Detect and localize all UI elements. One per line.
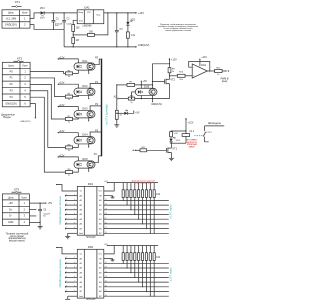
wire opto DU5 output to bus, net Р4 [93, 153, 101, 163]
svg-text:8: 8 [74, 223, 75, 225]
svg-text:Конт: Конт [22, 196, 28, 199]
svg-text:2: 2 [66, 257, 67, 259]
wire XT2 pin5 net Р4 [30, 97, 65, 172]
red note near relay [186, 140, 198, 149]
red note resistor network [131, 180, 155, 185]
DD2 OE pin ground [104, 259, 115, 261]
svg-text:LM2596: LM2596 [83, 24, 93, 27]
resistor R8 [128, 95, 134, 103]
svg-text:3: 3 [66, 199, 67, 201]
svg-text:GND(12V): GND(12V) [151, 104, 162, 106]
DD1 input pin 8 wire [65, 223, 77, 225]
bus annotation [105, 104, 109, 124]
svg-text:9: 9 [66, 227, 67, 229]
signal bus to DD1/DD2 [101, 59, 102, 157]
ground rail GND(12V) [64, 44, 149, 48]
svg-text:Vcc: Vcc [99, 254, 103, 256]
svg-text:1к: 1к [130, 102, 132, 104]
svg-text:Вых: Вых [97, 15, 101, 17]
DD2 output line 1 to LPT [104, 267, 169, 269]
svg-text:+12V: +12V [59, 82, 65, 85]
DD1 Vcc to rail wire [104, 183, 114, 191]
svg-text:внутри платы): внутри платы) [9, 240, 25, 243]
svg-text:+12V: +12V [188, 122, 194, 125]
wire XT3 D- [30, 215, 37, 217]
svg-text:+12V: +12V [59, 104, 65, 107]
wire opto DU2 output to bus, net Р1 [90, 81, 101, 89]
+5V arrow at DU6 [141, 80, 148, 85]
svg-text:15: 15 [105, 218, 107, 220]
svg-text:5: 5 [74, 271, 75, 273]
DD2 input pin 5 wire [65, 271, 77, 273]
wire DA2 output [207, 70, 214, 72]
wire R8 to opto DU4 [73, 144, 79, 147]
svg-text:+5V: +5V [143, 81, 148, 83]
DD2 Vcc wire [56, 247, 77, 254]
wire R5 to opto DU1 [73, 70, 79, 73]
DD2 LPT annotation [169, 267, 173, 282]
optocoupler DU5 [74, 157, 95, 168]
resistor R10 [177, 71, 185, 81]
svg-text:74НС245: 74НС245 [86, 237, 96, 239]
wire XT1 pin2 ground rail [30, 25, 64, 47]
svg-text:3: 3 [74, 199, 75, 201]
DD1 pull-up resistor array 9x [122, 183, 161, 234]
DD1 output line 7 to LPT [104, 232, 169, 234]
svg-text:2: 2 [66, 194, 67, 196]
svg-text:14: 14 [105, 213, 107, 215]
note under XT3 [6, 233, 29, 243]
svg-text:не ставить: не ставить [186, 140, 198, 142]
label discrete inputs [1, 113, 15, 119]
svg-text:3: 3 [74, 262, 75, 264]
svg-text:15: 15 [105, 281, 107, 283]
diode VD1 [40, 7, 46, 19]
connector XT2 table [2, 62, 30, 107]
relay coil K1 [182, 131, 195, 143]
pulldown resistor on node A1 [115, 84, 121, 125]
svg-text:8: 8 [66, 285, 67, 287]
svg-text:Цепь: Цепь [8, 196, 15, 199]
+12V feed opto DU2 [58, 82, 79, 89]
node A1 input [114, 96, 129, 100]
DD2 input pin 7 wire [65, 281, 77, 283]
svg-text:6: 6 [74, 213, 75, 215]
DD1 Vcc wire [56, 184, 77, 191]
svg-text:D−: D− [9, 215, 13, 218]
DD1 OE pin ground [104, 196, 115, 198]
svg-text:13: 13 [105, 208, 107, 210]
DD2 output line 4 to LPT [104, 281, 169, 283]
opto DU4 emitter ground [88, 144, 90, 148]
DD1 output line 5 to LPT [104, 223, 169, 225]
spindle connector [203, 121, 224, 142]
svg-text:16: 16 [105, 285, 107, 287]
optocoupler DU3 [74, 107, 95, 118]
svg-text:18: 18 [105, 232, 107, 234]
+12V feed opto DU3 [58, 104, 79, 111]
wire DU6 collector to R9 node [152, 64, 170, 88]
svg-text:1к: 1к [68, 150, 70, 152]
connector XT3 label [12, 188, 22, 194]
wire XT3 D+ [30, 209, 37, 211]
svg-text:выбирать исходя из входного на: выбирать исходя из входного напряжения [158, 26, 198, 28]
svg-text:Цепь: Цепь [8, 12, 15, 15]
svg-text:К1.1: К1.1 [190, 131, 195, 133]
svg-text:1к: 1к [172, 71, 174, 73]
resistor R5 input Р0 [65, 70, 72, 77]
svg-text:7: 7 [66, 218, 67, 220]
regulator DA1 [77, 6, 104, 28]
wire XT1 pin1 to VD1 [30, 13, 41, 19]
svg-text:4: 4 [66, 204, 67, 206]
gate resistor R12 [140, 147, 147, 152]
DA2 +12V supply [199, 57, 207, 66]
svg-text:связь!: связь! [189, 147, 196, 149]
svg-text:ХТ1: ХТ1 [15, 0, 21, 4]
svg-text:VD2: VD2 [131, 20, 136, 22]
svg-text:2: 2 [74, 194, 75, 196]
IC DD1 [77, 182, 104, 239]
svg-text:13: 13 [105, 271, 107, 273]
svg-text:1М: 1М [76, 40, 79, 42]
svg-text:9: 9 [66, 290, 67, 292]
svg-text:1к: 1к [68, 76, 70, 78]
DD1 Gnd pin wire [65, 233, 77, 239]
DD2 input pin 6 wire [65, 276, 77, 278]
svg-text:10к: 10к [179, 79, 182, 81]
wire opto DU3 output to bus, net Р2 [90, 103, 101, 111]
connector XT3 table [2, 194, 29, 226]
DD1 output line 2 to LPT [104, 208, 169, 210]
svg-text:6: 6 [74, 276, 75, 278]
optocoupler DU4 [74, 133, 95, 144]
transistor VT1 [166, 146, 177, 153]
wire VT2 drain to R10 [170, 75, 178, 77]
opto DU2 emitter ground [88, 95, 90, 99]
DD1 output line 4 to LPT [104, 218, 169, 220]
opto DU1 emitter ground [88, 70, 90, 74]
wire R7 to opto DU3 [73, 118, 79, 119]
LED VD3 [117, 110, 140, 115]
resistor R4 1.3k [127, 32, 136, 47]
capacitor C2 [62, 13, 72, 29]
DD1 output line 1 to LPT [104, 204, 169, 206]
svg-text:4007: 4007 [40, 17, 46, 19]
wire opto DU1 output to bus, net Р0 [93, 56, 101, 64]
DD1 input pin 6 wire [65, 213, 77, 215]
+12V feed relay [185, 118, 194, 132]
DD2 processed signals annotation [58, 259, 62, 288]
DD1 +5V pull-up rail [104, 181, 159, 183]
svg-text:обратная: обратная [187, 144, 198, 146]
DD2 input pin 9 wire [65, 290, 77, 292]
svg-text:(вых): (вых) [222, 81, 228, 83]
svg-text:GND(12V): GND(12V) [20, 121, 30, 123]
svg-text:3: 3 [66, 262, 67, 264]
opto DU5 emitter ground [88, 168, 90, 172]
DD2 input pin 4 wire [65, 267, 77, 269]
connector XT1 table [2, 10, 30, 28]
optocoupler DU2 [74, 84, 95, 95]
DD1 output line 0 to LPT [104, 199, 169, 201]
PWM gate input terminal [132, 149, 140, 151]
svg-text:17: 17 [105, 290, 107, 292]
DD1 input pin 5 wire [65, 208, 77, 210]
svg-text:16: 16 [105, 223, 107, 225]
DD1 LPT annotation [169, 204, 173, 219]
svg-text:1к: 1к [120, 115, 122, 117]
op-amp DA2 [192, 64, 207, 78]
svg-text:+5V: +5V [104, 181, 108, 183]
wire R7 to DU6 anode, +5V node [135, 84, 153, 88]
wire VT2 gate to DU6 collector [153, 81, 165, 83]
svg-text:+12V: +12V [59, 56, 65, 59]
wire R9 to opto DU5 [73, 168, 79, 172]
svg-text:GND(12V): GND(12V) [5, 102, 17, 105]
svg-text:5: 5 [66, 271, 67, 273]
wire VD1 to DA1 input [44, 12, 77, 13]
svg-text:1к: 1к [68, 121, 70, 123]
DD1 input pin 9 wire [65, 227, 77, 229]
svg-text:9: 9 [74, 290, 75, 292]
wire VT1 source to ground [170, 153, 172, 159]
DD2 input pin 3 wire [65, 262, 77, 264]
optocoupler DU1 [74, 59, 95, 70]
wire DA1 gnd pin [73, 20, 77, 24]
DD1 processed signals annotation [58, 196, 62, 225]
svg-text:+5V: +5V [104, 244, 108, 246]
svg-text:Конт: Конт [22, 12, 28, 15]
wire XT3 GND to ground [30, 222, 43, 229]
wire DU6 left pin [131, 92, 136, 99]
svg-text:2: 2 [74, 257, 75, 259]
svg-text:Конт: Конт [22, 65, 28, 68]
svg-text:ХТ1.2: ХТ1.2 [206, 132, 213, 134]
DD2 input pin 8 wire [65, 285, 77, 287]
resistor 1.2k relay branch [170, 132, 179, 137]
svg-text:1к: 1к [68, 99, 70, 101]
opto DU3 emitter ground [88, 118, 90, 122]
DD1 input pin 3 wire [65, 199, 77, 201]
svg-text:D+: D+ [9, 208, 13, 211]
LED VD4 [169, 137, 180, 144]
svg-text:ХТ2: ХТ2 [17, 56, 23, 60]
svg-text:+12V: +12V [59, 130, 65, 133]
wire VT1 drain to relay [170, 143, 172, 148]
DD1 input pin 7 wire [65, 218, 77, 220]
note about power supply [158, 24, 198, 32]
DD2 output line 5 to LPT [104, 285, 169, 287]
optocoupler DU6 [135, 84, 157, 95]
IC DD2 [77, 245, 104, 301]
wire diode bottom to coil bottom [171, 142, 186, 144]
DD2 output line 7 to LPT [104, 295, 169, 297]
svg-text:17: 17 [105, 227, 107, 229]
+12V feed opto DU1 [58, 56, 79, 63]
resistor R9 input Р4 [65, 169, 72, 176]
wire R2 to ground rail [72, 44, 74, 47]
ground arrow GND(12V) under XT2 [20, 104, 36, 123]
svg-text:GND(12V): GND(12V) [138, 44, 150, 47]
PWM output terminal [221, 70, 230, 83]
DD2 output line 3 to LPT [104, 276, 169, 278]
DD2 Vcc to rail wire [104, 246, 114, 254]
svg-text:4: 4 [74, 267, 75, 269]
svg-text:5: 5 [74, 208, 75, 210]
DD2 output line 6 to LPT [104, 290, 169, 292]
wire DU6 emitter ground GND(12V) [151, 96, 162, 107]
svg-text:18: 18 [105, 295, 107, 297]
wire to snubber branch [171, 130, 186, 133]
wire R10 to DA2 input [185, 75, 192, 77]
svg-text:12: 12 [105, 267, 107, 269]
resistor R9 [168, 68, 175, 73]
svg-text:7: 7 [66, 281, 67, 283]
svg-text:Цепь: Цепь [8, 65, 15, 68]
wire XT2 pin3 net Р2 [30, 84, 65, 119]
svg-text:VD1: VD1 [40, 7, 45, 10]
DD1 input pin 4 wire [65, 204, 77, 206]
resistor R8 input Р3 [65, 144, 72, 151]
wire XT2 pin4 net Р3 [30, 91, 65, 148]
svg-text:9: 9 [74, 227, 75, 229]
feedback resistor R3 300 [73, 13, 108, 37]
capacitor C6 [38, 203, 50, 222]
ground at VT1 [169, 158, 174, 160]
svg-text:7: 7 [74, 281, 75, 283]
svg-text:Радиатор стабилизатора напряже: Радиатор стабилизатора напряжения [160, 24, 196, 26]
svg-text:+5V: +5V [8, 202, 13, 205]
resistor R7 input Р2 [65, 116, 72, 123]
svg-text:Gnd: Gnd [79, 20, 83, 22]
svg-text:10К: 10К [156, 194, 161, 196]
svg-text:8: 8 [74, 285, 75, 287]
DD2 pull-up resistor array 9x [122, 246, 161, 297]
svg-text:4: 4 [74, 204, 75, 206]
resistor R2 1M [72, 38, 79, 44]
svg-text:схемы управления станком: схемы управления станком [165, 30, 192, 32]
svg-text:РWМ В: РWМ В [221, 79, 229, 81]
svg-text:1к: 1к [68, 175, 70, 177]
resistor R7 top [117, 82, 135, 87]
wire XT2 pin2 net Р1 [30, 78, 65, 97]
DD2 +5V pull-up rail [104, 244, 159, 246]
capacitor C1 [52, 13, 63, 29]
wire DU6 led cathode [140, 96, 142, 99]
svg-text:если есть: если есть [187, 142, 198, 144]
capacitor C3 [115, 13, 123, 47]
DA2 feedback loop [189, 62, 211, 72]
wire DA1 output +12V rail [104, 12, 136, 13]
DD1 input pin 2 wire [65, 194, 77, 196]
svg-text:11: 11 [105, 262, 107, 264]
power connector XT1 label [12, 0, 22, 7]
wire R9 to VT2 drain [169, 73, 170, 80]
svg-text:+12..24В: +12..24В [6, 17, 17, 20]
wire R8 to DU6 and VT2 source [135, 98, 170, 99]
resistor R6 input Р1 [65, 94, 72, 101]
wire VT2 source to GND line [169, 84, 171, 99]
svg-text:11: 11 [105, 199, 107, 201]
wire R6 to opto DU2 [73, 95, 79, 96]
connector XT2 label [14, 56, 24, 62]
svg-text:Входы: Входы [3, 116, 11, 119]
mechanical link to contact [194, 135, 203, 137]
ground at pulldown [114, 125, 119, 127]
svg-text:GND(12V): GND(12V) [5, 24, 17, 27]
DD1 output line 6 to LPT [104, 227, 169, 229]
resistor R1 100 [72, 25, 80, 32]
svg-text:1к: 1к [217, 74, 219, 76]
svg-text:GND: GND [8, 221, 14, 224]
svg-text:4: 4 [66, 267, 67, 269]
wire R12 to VT1 gate [147, 149, 167, 151]
transistor VT2 [165, 78, 176, 85]
svg-text:резисторами 9х1к: резисторами 9х1к [134, 183, 151, 185]
svg-text:8: 8 [66, 223, 67, 225]
DD1 output line 3 to LPT [104, 213, 169, 215]
svg-text:5: 5 [66, 208, 67, 210]
wire XT2 pin1 net Р0 [30, 72, 65, 74]
DD2 output line 0 to LPT [104, 262, 169, 264]
svg-text:DA2: DA2 [201, 64, 206, 67]
wire XT3 +5V [30, 202, 53, 205]
svg-text:10К: 10К [156, 257, 161, 259]
svg-text:7: 7 [74, 218, 75, 220]
svg-text:6: 6 [66, 213, 67, 215]
+12V feed opto DU4 [58, 130, 79, 137]
+12V feed for VT2 [169, 58, 178, 67]
svg-text:+5V: +5V [48, 202, 53, 205]
svg-text:6: 6 [66, 276, 67, 278]
LED VD2 indicator [126, 13, 136, 32]
svg-text:+12V: +12V [201, 57, 207, 59]
node +12V arrow [136, 11, 145, 15]
svg-text:14: 14 [105, 276, 107, 278]
svg-text:1,2К: 1,2К [174, 133, 179, 135]
svg-text:+12V: +12V [59, 154, 65, 157]
svg-text:+12V: +12V [171, 58, 177, 61]
wire opto DU4 output to bus, net Р3 [90, 129, 101, 137]
DD2 Gnd pin wire [65, 296, 77, 302]
DD2 output line 2 to LPT [104, 271, 169, 273]
resistor R11 [215, 67, 223, 76]
svg-text:+5V: +5V [135, 113, 140, 115]
svg-text:12: 12 [105, 204, 107, 206]
+12V feed opto DU5 [58, 154, 79, 161]
svg-text:Vcc: Vcc [99, 191, 103, 193]
wire R1 to R2 [73, 31, 74, 37]
DD2 input pin 2 wire [65, 257, 77, 259]
